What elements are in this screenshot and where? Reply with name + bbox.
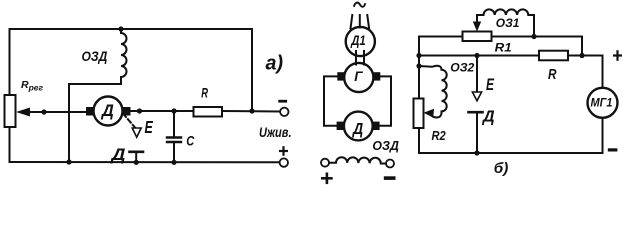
- wire: Rreg bottom lead: [9, 127, 11, 162]
- brush left of middle D: [337, 122, 344, 130]
- EMF arrow E (circuit b): [472, 92, 481, 101]
- wire: circuit b second bus: [419, 55, 539, 57]
- sensor contact T (circuit b): [469, 111, 483, 114]
- svg-text:C: C: [186, 132, 195, 148]
- potentiometer R2: [414, 99, 424, 129]
- wire: G-D loop left: [324, 76, 337, 125]
- meter MG1: [588, 88, 618, 118]
- node: OZD top junction: [118, 26, 123, 31]
- node: sensor T bottom junction: [134, 160, 139, 165]
- potentiometer R1: [463, 32, 492, 42]
- label minus (circuit a): [278, 100, 287, 103]
- wire: OZD return to bottom bus: [69, 77, 121, 162]
- wire: circuit a bottom bus: [10, 161, 280, 163]
- node: OZ1 right junction: [531, 34, 536, 39]
- node: dot near motor output: [137, 108, 142, 113]
- svg-text:E: E: [145, 117, 154, 137]
- inductor OZD (winding): [121, 29, 127, 77]
- svg-text:ОЗ2: ОЗ2: [450, 62, 475, 75]
- inductor OZD (separate winding): [329, 157, 386, 163]
- resistor Rreg: [5, 95, 16, 127]
- svg-text:ОЗД: ОЗД: [82, 49, 108, 64]
- three-phase supply lines: [351, 15, 353, 29]
- capacitor C bottom lead: [173, 143, 175, 162]
- node: wiper line junction: [41, 109, 46, 114]
- terminal: OZD plus: [321, 159, 329, 167]
- winding OZ1 over R1: [477, 9, 534, 36]
- shaft coupling D1-G: [355, 51, 357, 65]
- label plus (middle): [321, 173, 333, 185]
- motor D (circuit a): [94, 97, 123, 126]
- wiper arrowhead on Rreg: [16, 108, 30, 117]
- wire: R2 bottom lead: [419, 128, 603, 153]
- wire: circuit a top bus: [10, 29, 253, 111]
- brush left of G: [337, 72, 344, 80]
- brush left of motor D: [86, 107, 94, 116]
- svg-text:ОЗД: ОЗД: [372, 138, 399, 153]
- node: R output junction: [579, 53, 584, 58]
- capacitor C top lead: [173, 111, 175, 137]
- svg-text:E: E: [486, 76, 495, 94]
- wire: MG1 to bottom bus: [602, 118, 604, 153]
- terminal: minus output (circuit a): [280, 108, 288, 116]
- wiper arrowhead on R1: [473, 22, 481, 32]
- node: sensor T bottom junction (b): [474, 150, 479, 155]
- terminal: OZD minus: [386, 160, 394, 168]
- svg-text:R1: R1: [495, 40, 512, 54]
- svg-text:Д: Д: [351, 121, 363, 138]
- wire: circuit b left vertical: [419, 37, 463, 99]
- node: right vertical junction: [249, 108, 254, 113]
- sensor contact T (circuit a): [130, 151, 144, 154]
- node: OZD bottom junction: [66, 159, 71, 164]
- svg-text:а): а): [266, 53, 284, 75]
- node: capacitor top junction: [171, 108, 176, 113]
- label minus (middle): [384, 176, 396, 180]
- svg-text:б): б): [494, 160, 509, 177]
- motor D1 (drive motor): [346, 27, 375, 56]
- svg-text:Д1: Д1: [350, 32, 365, 48]
- node: capacitor bottom junction: [171, 160, 176, 165]
- resistor R (circuit b): [539, 51, 568, 61]
- EMF arrow E (circuit b) stem: [476, 56, 478, 92]
- svg-text:Д: Д: [100, 102, 114, 120]
- wire: Rreg wiper line: [24, 111, 86, 113]
- brush right of G: [373, 72, 380, 80]
- node: OZ2 top junction: [416, 63, 421, 68]
- svg-text:Г: Г: [354, 69, 363, 84]
- label plus (circuit b): [613, 50, 622, 61]
- generator G: [344, 63, 373, 92]
- svg-text:R2: R2: [432, 128, 446, 143]
- wiper arrowhead on R2: [424, 109, 435, 118]
- wire: R to MG1 corner: [568, 56, 603, 89]
- node: E stem junction: [474, 53, 479, 58]
- svg-text:Д: Д: [109, 145, 125, 164]
- svg-text:МГ1: МГ1: [591, 95, 613, 109]
- wire: G-D loop right: [380, 76, 391, 125]
- resistor R (circuit a): [194, 107, 223, 117]
- terminal: plus output (circuit a): [280, 158, 288, 166]
- motor D (load, middle): [344, 112, 373, 141]
- winding OZ2: [419, 66, 447, 118]
- svg-text:R: R: [548, 66, 557, 83]
- capacitor C plates: [167, 136, 181, 138]
- wire: motor D output to resistor R: [131, 110, 194, 112]
- dashed EMF pickoff line (circuit a): [123, 114, 135, 128]
- EMF arrow E (circuit a): [132, 128, 141, 137]
- svg-text:Uжив.: Uжив.: [259, 125, 292, 140]
- svg-text:R: R: [201, 84, 208, 100]
- brush right of middle D: [372, 122, 379, 130]
- brush right of motor D: [123, 107, 131, 116]
- wire: R to minus terminal: [222, 110, 280, 113]
- label tilde (AC): [354, 3, 366, 7]
- node: wire2 left junction: [416, 53, 421, 58]
- svg-text:Д: Д: [481, 108, 495, 125]
- svg-text:ОЗ1: ОЗ1: [496, 16, 520, 30]
- label minus (circuit b): [608, 148, 618, 151]
- label plus (circuit a): [279, 146, 288, 156]
- wire: R1 to right corner: [492, 37, 583, 56]
